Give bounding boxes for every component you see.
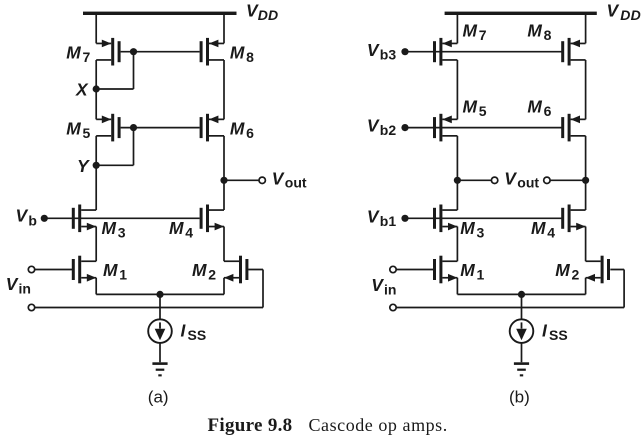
svg-text:5: 5 [479, 103, 487, 119]
svg-text:I: I [542, 320, 548, 340]
svg-text:M: M [555, 260, 570, 280]
svg-text:Cascode op amps.: Cascode op amps. [309, 415, 448, 435]
svg-text:DD: DD [258, 7, 279, 23]
svg-text:M: M [527, 97, 542, 117]
svg-text:V: V [367, 116, 380, 136]
svg-text:M: M [531, 218, 546, 238]
svg-text:2: 2 [208, 267, 216, 283]
svg-text:M: M [230, 43, 245, 63]
svg-text:M: M [66, 119, 81, 139]
svg-text:DD: DD [620, 7, 641, 23]
svg-text:in: in [19, 281, 31, 297]
svg-text:out: out [285, 174, 307, 190]
svg-text:in: in [384, 282, 396, 298]
svg-text:V: V [367, 206, 380, 226]
svg-text:b2: b2 [380, 122, 397, 138]
svg-text:M: M [527, 21, 542, 41]
svg-text:V: V [367, 40, 380, 60]
svg-text:V: V [504, 168, 517, 188]
svg-text:b3: b3 [380, 46, 397, 62]
svg-text:V: V [607, 0, 620, 20]
svg-text:M: M [230, 119, 245, 139]
svg-text:M: M [103, 260, 118, 280]
svg-text:Figure 9.8: Figure 9.8 [208, 415, 293, 436]
svg-text:5: 5 [83, 125, 91, 141]
svg-text:M: M [66, 43, 81, 63]
svg-text:1: 1 [477, 267, 485, 283]
svg-text:7: 7 [479, 27, 487, 43]
svg-text:out: out [517, 174, 539, 190]
svg-text:M: M [460, 218, 475, 238]
svg-text:Y: Y [77, 156, 90, 176]
svg-text:X: X [75, 80, 89, 100]
svg-text:M: M [460, 260, 475, 280]
svg-text:3: 3 [477, 224, 485, 240]
svg-text:I: I [181, 320, 187, 340]
svg-text:SS: SS [188, 327, 207, 343]
svg-text:M: M [192, 260, 207, 280]
svg-text:1: 1 [119, 267, 127, 283]
svg-text:8: 8 [544, 27, 552, 43]
svg-text:V: V [16, 206, 29, 226]
svg-text:M: M [102, 218, 117, 238]
svg-text:8: 8 [246, 49, 254, 65]
svg-text:6: 6 [544, 103, 552, 119]
svg-text:V: V [371, 275, 384, 295]
svg-text:3: 3 [118, 224, 126, 240]
svg-text:b1: b1 [380, 213, 397, 229]
svg-text:M: M [169, 218, 184, 238]
svg-text:V: V [272, 168, 285, 188]
svg-text:4: 4 [185, 224, 193, 240]
svg-text:6: 6 [246, 125, 254, 141]
svg-text:M: M [463, 97, 478, 117]
svg-text:M: M [463, 21, 478, 41]
svg-text:2: 2 [572, 267, 580, 283]
svg-text:(b): (b) [509, 388, 530, 407]
svg-text:SS: SS [549, 327, 568, 343]
svg-text:7: 7 [83, 49, 91, 65]
svg-text:b: b [28, 212, 37, 228]
svg-text:V: V [6, 274, 19, 294]
svg-text:4: 4 [547, 224, 555, 240]
svg-text:(a): (a) [148, 388, 169, 407]
